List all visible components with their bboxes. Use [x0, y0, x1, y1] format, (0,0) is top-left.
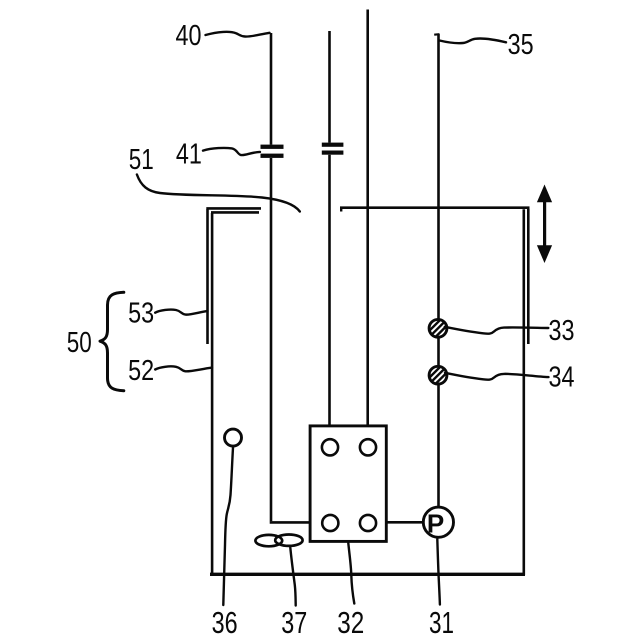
- svg-text:36: 36: [212, 605, 238, 640]
- svg-text:32: 32: [337, 605, 364, 640]
- svg-text:40: 40: [176, 20, 202, 52]
- svg-text:52: 52: [128, 355, 154, 387]
- svg-text:33: 33: [549, 315, 575, 347]
- svg-text:31: 31: [429, 605, 454, 640]
- svg-text:P: P: [427, 508, 444, 538]
- svg-text:34: 34: [549, 361, 575, 393]
- svg-text:41: 41: [176, 139, 202, 171]
- svg-text:35: 35: [508, 29, 534, 61]
- svg-text:51: 51: [129, 144, 154, 176]
- svg-text:53: 53: [128, 298, 154, 330]
- svg-text:50: 50: [67, 327, 92, 359]
- svg-text:37: 37: [281, 605, 307, 640]
